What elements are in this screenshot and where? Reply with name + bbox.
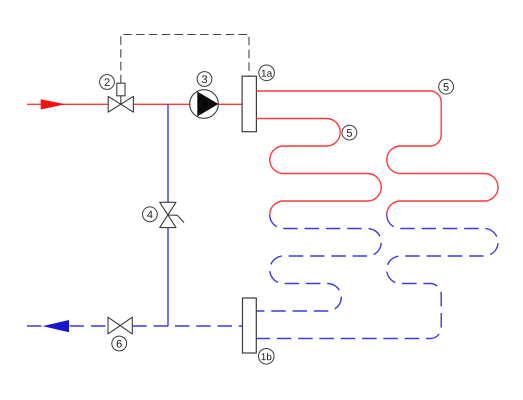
svg-text:5: 5 <box>346 128 352 140</box>
svg-text:3: 3 <box>201 74 207 86</box>
wire: supply pipe pump-to-manifold (red) <box>218 103 242 105</box>
valve V2 actuator <box>117 83 125 96</box>
label circle 2 <box>100 75 115 90</box>
label circle 3 <box>197 72 212 87</box>
valve V2 body <box>108 96 133 112</box>
label circle 4 <box>143 207 158 222</box>
supply pipe segment left (red) <box>27 103 108 105</box>
heating loop B return run (blue dashed serpentine, outer) <box>256 215 498 339</box>
label circle 5 (loop B) <box>439 79 454 94</box>
heating loop A return run (blue dashed serpentine, inner) <box>256 215 381 311</box>
svg-text:5: 5 <box>443 82 449 94</box>
svg-text:6: 6 <box>116 338 122 350</box>
svg-text:1a: 1a <box>261 69 273 80</box>
label circle 5 (loop A) <box>342 125 357 140</box>
bypass pipe vertical upper (blue) <box>167 104 169 202</box>
manifold 1b (return) <box>243 298 257 353</box>
bypass pipe vertical lower (blue) <box>167 228 169 326</box>
flow arrow supply (red) <box>41 99 66 109</box>
control wire dashed (valve2 to manifold 1a) <box>121 35 249 84</box>
valve V4 body (vertical) <box>160 202 176 227</box>
svg-text:1b: 1b <box>261 352 273 363</box>
svg-text:4: 4 <box>147 209 153 221</box>
flow arrow return (blue) <box>43 320 69 332</box>
valve V6 body <box>108 317 132 334</box>
return pipe left (blue dashed) <box>27 325 108 327</box>
pump P3 rotor triangle <box>197 92 218 117</box>
label circle 1b <box>259 349 275 365</box>
wire: supply pipe valve2-to-pump (red) <box>133 103 189 105</box>
label circle 1a <box>259 65 275 81</box>
heating loop B supply run (red serpentine, outer) <box>256 91 498 215</box>
return pipe valve6-to-manifold (blue dashed) <box>132 325 242 327</box>
label circle 6 <box>112 336 127 351</box>
heating loop A supply run (red serpentine, inner) <box>256 119 381 215</box>
manifold 1a (supply) <box>242 76 256 132</box>
valve V4 lever <box>168 215 184 223</box>
svg-text:2: 2 <box>104 77 110 89</box>
pump P3 circle <box>190 90 219 119</box>
valve V2 actuator stem <box>120 96 122 104</box>
